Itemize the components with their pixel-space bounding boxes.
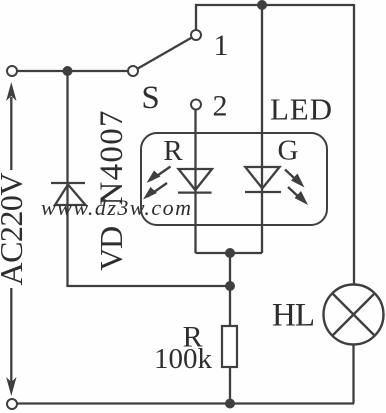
LED R arrow 2: [143, 183, 167, 200]
AC220V arrowhead down: [6, 377, 16, 396]
wire VD branch horizontal: [66, 285, 230, 287]
LED R diode: [178, 169, 212, 193]
svg-text:S: S: [141, 80, 159, 116]
LED G arrow 2: [288, 187, 308, 205]
svg-text:AC220V: AC220V: [0, 173, 29, 286]
wire resistor top: [229, 286, 231, 326]
svg-text:100k: 100k: [154, 343, 213, 375]
lamp HL: [324, 285, 384, 345]
wire top horizontal: [196, 4, 354, 6]
svg-text:HL: HL: [272, 298, 315, 334]
wire resistor bottom: [229, 367, 231, 404]
svg-text:N4007: N4007: [94, 111, 130, 206]
switch contact 1: [191, 30, 201, 40]
svg-text:G: G: [278, 135, 299, 167]
switch S blade: [138, 38, 192, 69]
switch contact 2: [191, 100, 201, 110]
AC220V arrowhead up: [6, 82, 16, 101]
node junction left: [63, 66, 73, 76]
svg-text:VD: VD: [93, 226, 129, 271]
AC220V indicator arrow line top: [10, 97, 12, 170]
LED G diode: [245, 167, 281, 192]
wire bottom horizontal: [17, 402, 354, 404]
svg-text:R: R: [163, 135, 183, 167]
wire contact1 to top: [195, 4, 197, 30]
LED module box: [141, 133, 327, 225]
svg-text:LED: LED: [270, 92, 332, 127]
resistor R1 body: [222, 326, 237, 367]
LED G arrow 1: [285, 170, 305, 188]
terminal AC bottom-left: [7, 399, 17, 409]
AC220V indicator arrow line bottom: [10, 288, 12, 382]
terminal AC top-left: [7, 66, 17, 76]
node junction top: [257, 0, 267, 10]
wire top-left horizontal: [17, 70, 128, 72]
node junction bottom: [225, 399, 235, 409]
svg-text:2: 2: [213, 90, 228, 123]
wire joining LED legs: [196, 252, 263, 254]
wire junction down: [229, 253, 231, 286]
switch S pole: [128, 66, 138, 76]
node junction LED legs: [225, 248, 235, 258]
wire right vertical: [353, 4, 355, 285]
node junction mid: [225, 281, 235, 291]
svg-text:1: 1: [214, 29, 229, 62]
LED R arrow 1: [147, 167, 171, 184]
wire LED-R branch vertical: [194, 110, 196, 253]
wire LED-G branch vertical: [261, 5, 263, 253]
wire lamp bottom: [352, 345, 354, 404]
diode VD: [51, 183, 86, 205]
wire VD branch vertical: [66, 71, 68, 286]
